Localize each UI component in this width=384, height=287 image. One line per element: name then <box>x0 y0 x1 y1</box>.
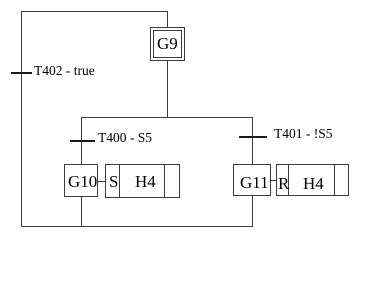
wire: drop from top into G9 <box>167 11 168 28</box>
label G10 <box>68 174 97 189</box>
wire: G10 down to return <box>81 197 82 226</box>
label T402 - true <box>34 64 95 77</box>
step G10 box <box>64 164 98 197</box>
action box G11 <box>276 164 349 196</box>
wire: G11 down to return <box>252 196 253 226</box>
label H4 left <box>135 174 156 189</box>
wire: G9 to branch <box>167 61 168 118</box>
label T400 - S5 <box>98 131 152 144</box>
wire: G11 to action box connector <box>271 180 277 181</box>
action box G10 divider right <box>164 164 165 198</box>
label S <box>109 174 118 189</box>
wire: G10 to action box connector <box>98 181 106 182</box>
label G9 <box>157 36 178 51</box>
step G9 outer (initial step double border) <box>150 27 185 61</box>
label R <box>278 176 289 191</box>
label T401 - !S5 <box>274 127 333 140</box>
action box G10 divider S <box>119 164 120 198</box>
transition T400 tick <box>70 140 95 142</box>
wire: right branch vertical to G11 <box>252 117 253 165</box>
action box G10 <box>105 164 180 198</box>
wire: top horizontal from left loop to G9 drop <box>21 11 168 12</box>
wire: bottom horizontal return <box>21 226 253 227</box>
wire: left vertical loop <box>21 11 22 226</box>
transition T402 tick <box>11 72 32 74</box>
label G11 <box>240 175 269 190</box>
action box G11 divider right <box>334 164 335 196</box>
transition T401 tick <box>239 136 267 138</box>
label H4 right <box>303 176 324 191</box>
step G11 box <box>233 164 271 196</box>
wire: left branch vertical to G10 <box>81 117 82 165</box>
wire: branch horizontal <box>81 117 253 118</box>
action box G11 divider R <box>288 164 289 196</box>
step G9 inner <box>153 30 182 58</box>
